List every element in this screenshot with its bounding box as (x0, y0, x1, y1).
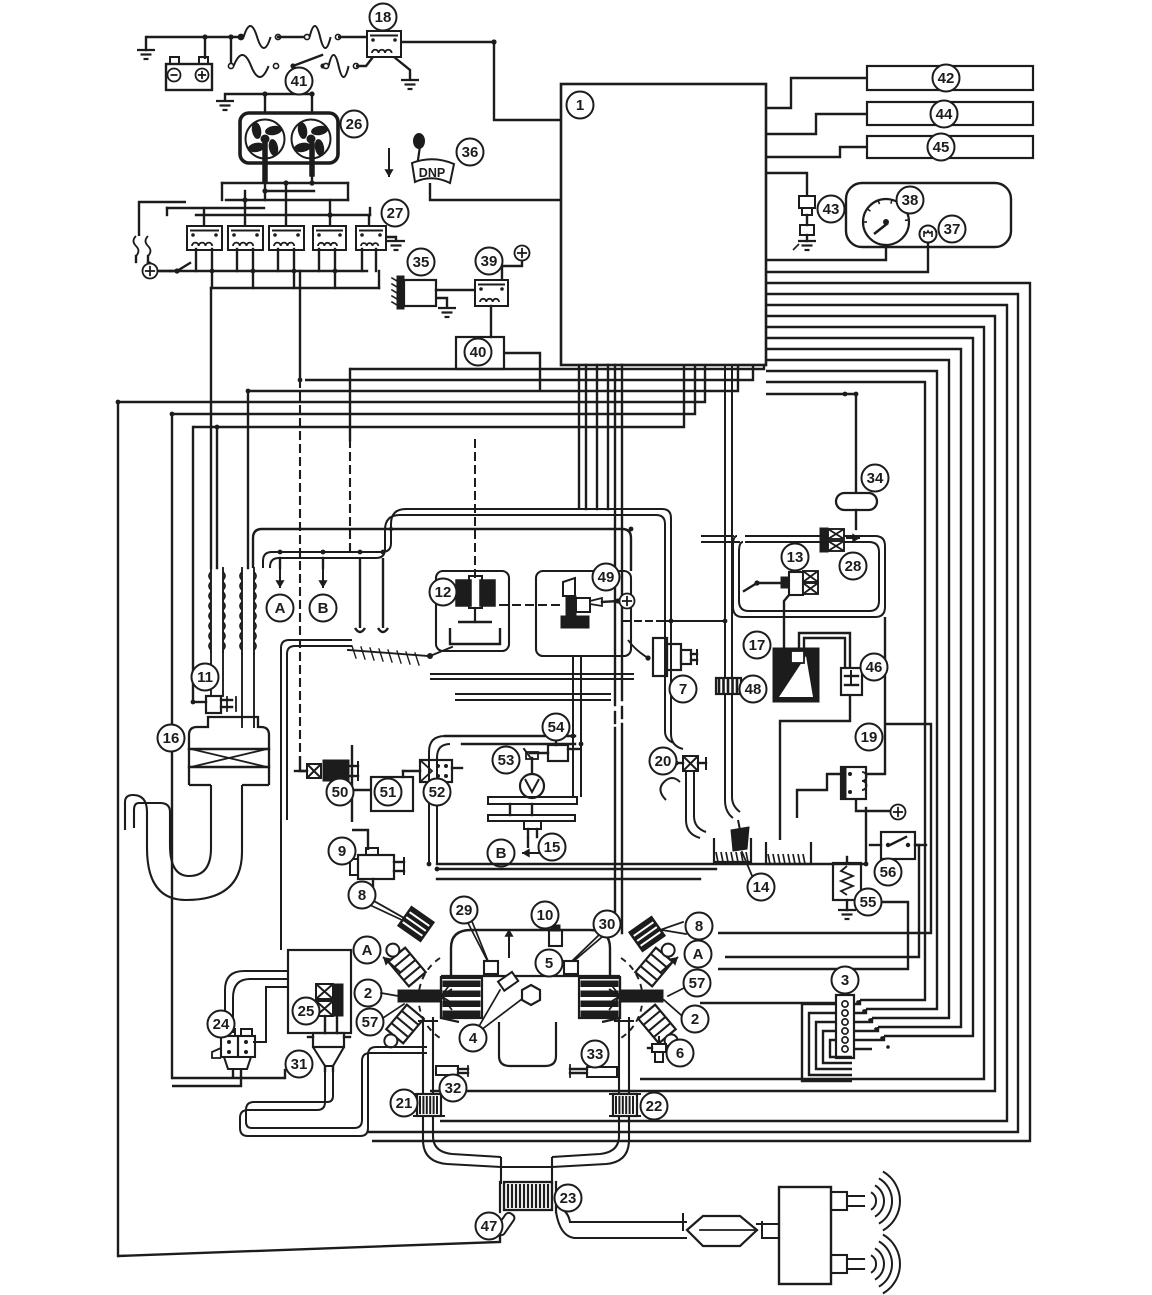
wire ECU bus right 8 (766, 360, 949, 1018)
gear selector 36 (412, 134, 561, 201)
label 30 (594, 911, 621, 938)
fan motor shafts (265, 145, 312, 181)
svg-text:22: 22 (646, 1098, 663, 1115)
label 24 (208, 1011, 235, 1038)
indicator 37 (920, 226, 937, 243)
wire to battery + post (204, 37, 206, 59)
label 5 (536, 950, 563, 977)
pipe 21 down (423, 1116, 501, 1167)
EGR valve 8 left (374, 901, 434, 942)
port stub A (275, 558, 284, 588)
svg-text:3: 3 (841, 972, 849, 989)
wire drop x172 (172, 414, 285, 1078)
svg-text:31: 31 (291, 1056, 308, 1073)
module 45 (867, 136, 1033, 158)
svg-text:38: 38 (902, 192, 919, 209)
pipe to rear muffler (757, 1224, 779, 1238)
pointer 57 left (383, 1004, 404, 1018)
injector A right bottom (638, 1005, 683, 1053)
resonator (683, 1214, 762, 1246)
svg-text:57: 57 (689, 975, 706, 992)
resistor 55 (833, 857, 861, 919)
valve 52 (403, 760, 462, 782)
relay bank 27 - relay 1 (187, 226, 222, 250)
svg-text:1: 1 (576, 97, 584, 114)
hose 24 right (253, 987, 288, 1042)
wire 37 to ECU (766, 243, 928, 272)
fitting 10 (549, 925, 562, 946)
label 35 (408, 249, 435, 276)
sensor 49 (561, 578, 635, 628)
svg-text:A: A (693, 946, 704, 963)
pointer 8 right (662, 930, 686, 934)
ground (battery circuit) (137, 37, 155, 59)
arc housing left (419, 958, 440, 1038)
arrow (shift direction) (384, 148, 393, 177)
float bowl right (766, 842, 811, 864)
wire ECU drop e (dashed mid) (614, 365, 616, 930)
pointer 8 left (372, 906, 402, 920)
wire connector3 left 4 (823, 1031, 852, 1063)
wire drop x305 (dashed) (300, 380, 318, 771)
wire ECU bus right 10 (766, 382, 925, 1000)
charcoal canister 16 (189, 717, 269, 785)
node A (267, 595, 294, 622)
wire ECU drop b (585, 365, 587, 509)
label A (685, 941, 712, 968)
label 43 (818, 196, 845, 223)
svg-text:2: 2 (691, 1011, 699, 1028)
arrow B engine (504, 929, 513, 958)
collector pipe (501, 1157, 552, 1184)
solenoid valve 13 (744, 571, 818, 595)
svg-text:11: 11 (197, 669, 213, 686)
wire relay 18 output (401, 42, 561, 120)
svg-text:47: 47 (481, 1218, 498, 1235)
arc housing right (621, 958, 642, 1038)
wire relay outputs (160, 249, 379, 288)
wire ECU bus right 6 (766, 338, 973, 1036)
pointer 2 left (381, 993, 398, 996)
svg-text:49: 49 (598, 569, 615, 586)
oil pan (499, 1022, 556, 1066)
svg-text:26: 26 (346, 116, 363, 133)
tailpipe (556, 1206, 687, 1238)
tailpipe tip lower (831, 1255, 864, 1273)
svg-text:41: 41 (291, 73, 308, 90)
wire ECU bus left 1 (350, 365, 764, 369)
module 42 (867, 66, 1033, 90)
relay 19 (841, 767, 867, 799)
solenoid valve 28 (820, 528, 860, 552)
wire ECU to 42 (766, 78, 867, 108)
connector 43 (793, 196, 816, 250)
wire ECU to 43 (766, 173, 807, 196)
hose canister serpentine outer (125, 785, 242, 900)
label 50 (327, 779, 354, 806)
wire ECU drop a (578, 365, 580, 509)
injector nozzle right (609, 982, 663, 1010)
injector A right top (635, 938, 680, 986)
svg-text:52: 52 (429, 784, 446, 801)
vacuum manifold hose pair upper (263, 509, 683, 749)
svg-text:8: 8 (695, 918, 703, 935)
svg-text:51: 51 (380, 784, 397, 801)
wire fan relay mesh (167, 174, 370, 224)
fitting 33 (570, 1065, 617, 1077)
arrow A left (383, 957, 400, 972)
svg-text:57: 57 (362, 1014, 379, 1031)
intake cross pipe pair A (430, 674, 634, 679)
wire connector3 right 3 (854, 1018, 872, 1022)
corrugated hose 1 (209, 568, 225, 696)
fitting 54 (524, 740, 580, 761)
label 42 (933, 65, 960, 92)
wire 34 stem (855, 510, 857, 529)
injector A left top (380, 938, 425, 986)
pointer 30 (575, 937, 602, 960)
wire ring to 19 (866, 617, 885, 774)
wire fan ground bracket (225, 94, 314, 101)
hose 46 to bowl (780, 695, 850, 840)
wire ECU bus right 3 (440, 305, 1007, 1121)
wire battery feed (146, 36, 241, 38)
svg-text:46: 46 (866, 659, 883, 676)
label 14 (748, 874, 775, 901)
battery (166, 57, 212, 90)
wire ECU drop d (607, 365, 609, 509)
corrugated hose 2 (240, 568, 256, 727)
label 39 (476, 248, 503, 275)
wire ECU bus left 3 (248, 365, 738, 391)
label 45 (928, 134, 955, 161)
bolt 4 (478, 972, 540, 1030)
svg-text:54: 54 (548, 719, 565, 736)
wire ECU bus left 4 (118, 365, 705, 402)
module box 25 (288, 950, 351, 1033)
svg-text:10: 10 (537, 907, 554, 924)
wire loop 55-56 b (725, 845, 919, 957)
hose 48 down to bowl (725, 694, 740, 818)
hose 31 route inner (246, 1053, 427, 1128)
label 32 (440, 1075, 467, 1102)
hose hook 20 (660, 778, 680, 800)
wire engine rail 1 (437, 863, 866, 865)
drain 47 (494, 1211, 516, 1236)
svg-text:35: 35 (413, 254, 430, 271)
svg-text:20: 20 (655, 753, 672, 770)
exhaust pipe right (615, 1018, 633, 1094)
label 38 (897, 187, 924, 214)
speedometer gauge (863, 199, 909, 245)
svg-text:2: 2 (364, 985, 372, 1002)
svg-text:53: 53 (498, 752, 515, 769)
label 47 (476, 1213, 503, 1240)
svg-text:30: 30 (599, 916, 616, 933)
label 37 (939, 216, 966, 243)
throttle flange bars (488, 797, 577, 821)
pipe 22 down (552, 1116, 629, 1167)
label 48 (740, 676, 767, 703)
svg-text:50: 50 (332, 784, 349, 801)
filter 48 (716, 678, 741, 694)
rear muffler (779, 1187, 831, 1284)
injector nozzle left (2) (398, 982, 452, 1010)
relay bank 27 - relay 3 (269, 226, 304, 250)
svg-text:25: 25 (298, 1003, 315, 1020)
wire 9 up (351, 745, 353, 822)
wire bottom boundary (118, 1228, 500, 1256)
module 40 (456, 337, 504, 369)
label 41 (286, 68, 313, 95)
svg-text:A: A (362, 942, 373, 959)
svg-text:4: 4 (469, 1030, 478, 1047)
label 16 (158, 725, 185, 752)
label 10 (532, 902, 559, 929)
wire y731 (445, 736, 575, 744)
svg-text:DNP: DNP (419, 166, 445, 180)
ground (fan circuit) (216, 101, 234, 110)
line y618 dashed (624, 620, 722, 622)
exhaust pipe left (419, 1018, 437, 1094)
wire row2 riser (230, 37, 232, 66)
label 6 (667, 1040, 694, 1067)
fuse F3 (228, 55, 278, 77)
svg-text:18: 18 (375, 9, 392, 26)
label 12 (430, 579, 457, 606)
label 55 (855, 889, 882, 916)
fuse F4 (323, 55, 358, 77)
label 1 (567, 92, 594, 119)
purge valve 11 (193, 696, 236, 713)
label 2 (355, 980, 382, 1007)
label 34 (862, 465, 889, 492)
pointer 2 right (664, 1000, 681, 1015)
hose 31 route outer (240, 1047, 427, 1136)
intake plenum dome (451, 930, 610, 976)
label 22 (641, 1093, 668, 1120)
switch 56 (870, 832, 926, 859)
battery feed (39) (502, 246, 530, 281)
hose 13 to 17 (784, 595, 789, 648)
wire (278, 36, 307, 38)
svg-text:14: 14 (753, 879, 770, 896)
label 57 (684, 970, 711, 997)
check valve 22 (610, 1094, 640, 1116)
wire ECU to 44 (766, 114, 867, 134)
fuse F2 (304, 26, 340, 48)
ground (relay 5) (386, 237, 405, 250)
relay bank 27 - relay 5 (356, 226, 386, 250)
port stub u2 (378, 558, 388, 632)
wire 19 to rail (865, 808, 867, 864)
valve 9 (350, 848, 404, 886)
label 19 (856, 724, 883, 751)
wire 9 stub (352, 830, 368, 850)
wire connector3 left 1 (802, 1004, 852, 1081)
pointer 29 (468, 923, 487, 960)
label 13 (782, 544, 809, 571)
wire left column b (287, 646, 352, 820)
wire 39 to 40 (490, 306, 492, 337)
svg-text:12: 12 (435, 584, 452, 601)
fitting 15 (524, 821, 541, 848)
solenoid 50 (295, 760, 358, 781)
label 28 (840, 553, 867, 580)
svg-text:45: 45 (933, 139, 950, 156)
relay 39 (475, 280, 508, 306)
svg-text:40: 40 (470, 344, 487, 361)
svg-text:24: 24 (213, 1016, 230, 1033)
solenoid valve 24 (212, 1029, 255, 1069)
vacuum reservoir 34 (836, 493, 877, 510)
pointer 57 right (668, 988, 684, 996)
label 23 (555, 1185, 582, 1212)
sound waves upper (871, 1172, 900, 1231)
label 54 (543, 714, 570, 741)
wire ECU drop c (596, 365, 598, 509)
svg-text:9: 9 (338, 843, 346, 860)
valve 14 (731, 820, 753, 878)
svg-text:37: 37 (944, 221, 961, 238)
label 21 (391, 1090, 418, 1117)
wire fuse row to relay 18 (338, 37, 368, 41)
connector 3 (836, 995, 854, 1058)
wire relay feed left (139, 202, 186, 236)
label 20 (650, 748, 677, 775)
label 15 (539, 834, 566, 861)
module 51 (371, 777, 413, 811)
arrow A right (661, 957, 678, 972)
svg-text:16: 16 (163, 730, 180, 747)
wire ECU bus left 5 (172, 365, 695, 414)
wire connector3 right 5 (854, 1036, 884, 1040)
label 2 (682, 1006, 709, 1033)
svg-text:B: B (318, 600, 329, 617)
label 4 (460, 1025, 487, 1052)
label 9 (329, 838, 356, 865)
ground (35) (436, 298, 456, 317)
svg-text:44: 44 (936, 106, 953, 123)
hose 17 to 46 (799, 633, 850, 668)
svg-text:17: 17 (749, 637, 766, 654)
svg-text:42: 42 (938, 70, 955, 87)
fitting 20 (672, 756, 706, 771)
svg-text:28: 28 (845, 558, 862, 575)
wire ECU to valve 34 (766, 394, 856, 493)
wire 40 right (504, 353, 540, 391)
intake cross pipe pair B (455, 694, 611, 700)
svg-text:36: 36 (462, 144, 479, 161)
wire 19 left (797, 774, 841, 818)
instrument cluster 38 (846, 183, 1011, 247)
wire connector3 right 6 (854, 1048, 872, 1050)
cyl bank right (579, 978, 620, 1018)
valve 53 (520, 752, 544, 798)
engine control unit 1 (561, 84, 766, 365)
label 8 (686, 913, 713, 940)
label 3 (832, 967, 859, 994)
wire left column a (281, 640, 352, 950)
vacuum manifold hose pair lower (270, 515, 674, 743)
label 27 (382, 200, 409, 227)
wire connector3 long left (700, 1002, 836, 1004)
wire ECU drop f (621, 365, 623, 933)
label 33 (582, 1041, 609, 1068)
wire loop 55-56 a (718, 724, 931, 933)
dashed line x475 (474, 440, 476, 578)
label 57 (357, 1009, 384, 1036)
hose canister serpentine inner (134, 785, 211, 876)
wire loop 55-56 c (718, 902, 908, 969)
svg-text:13: 13 (787, 549, 804, 566)
label 51 (375, 779, 402, 806)
manifold outline box 49 (536, 571, 631, 656)
svg-text:23: 23 (560, 1190, 577, 1207)
cyl bank left (441, 978, 482, 1018)
fitting 6 (648, 1036, 666, 1062)
relay bank 27 - relay 4 (313, 226, 346, 250)
relay 18 (367, 31, 401, 57)
svg-text:34: 34 (867, 470, 884, 487)
muffler 23 (500, 1182, 556, 1212)
label 25 (293, 998, 320, 1025)
port stub u1 (355, 558, 365, 632)
wire ECU to 45 (766, 147, 867, 157)
label 7 (670, 676, 697, 703)
svg-text:5: 5 (545, 955, 553, 972)
wire ECU bus right 1 (372, 283, 1030, 1141)
fuse F1 (238, 26, 280, 48)
check valve 21 (414, 1094, 444, 1116)
wire connector3 left 5 (830, 1040, 852, 1057)
svg-text:29: 29 (456, 902, 473, 919)
svg-text:32: 32 (445, 1080, 462, 1097)
svg-text:7: 7 (679, 681, 687, 698)
wire engine rail 3 (437, 878, 700, 880)
wire drop x252 (247, 391, 249, 568)
wire drop x118 outer (117, 402, 119, 1256)
wire connector3 right 4 (854, 1027, 878, 1031)
wire drop x212 (216, 427, 218, 568)
wire connector3 right 2 (854, 1009, 866, 1013)
svg-text:21: 21 (396, 1095, 413, 1112)
svg-text:33: 33 (587, 1046, 604, 1063)
spring wires (134, 236, 151, 263)
wire gauge to ECU (766, 245, 886, 260)
solenoid pair 25 (316, 984, 343, 1033)
svg-text:6: 6 (676, 1045, 684, 1062)
label 36 (457, 139, 484, 166)
wire engine rail 2 (437, 868, 716, 870)
hose pair box2 down (573, 656, 581, 797)
sensor 46 (841, 668, 862, 695)
wire ECU bus left 2 (305, 365, 753, 380)
hose 24 down (172, 1069, 241, 1086)
hose ring 13-28 outer (733, 536, 885, 617)
hose ring 13-28 inner (739, 542, 879, 611)
hose 25-24 loop (225, 971, 288, 1033)
hose ring top extension (702, 536, 739, 542)
label 40 (465, 339, 492, 366)
ignition coil hatch 35 (392, 276, 436, 309)
svg-text:B: B (496, 845, 507, 862)
wire row2 to relay 18 (356, 57, 373, 66)
svg-text:8: 8 (358, 887, 366, 904)
label 29 (451, 897, 478, 924)
node B (mid) (488, 840, 515, 867)
dashed link 12-49 (500, 604, 560, 606)
